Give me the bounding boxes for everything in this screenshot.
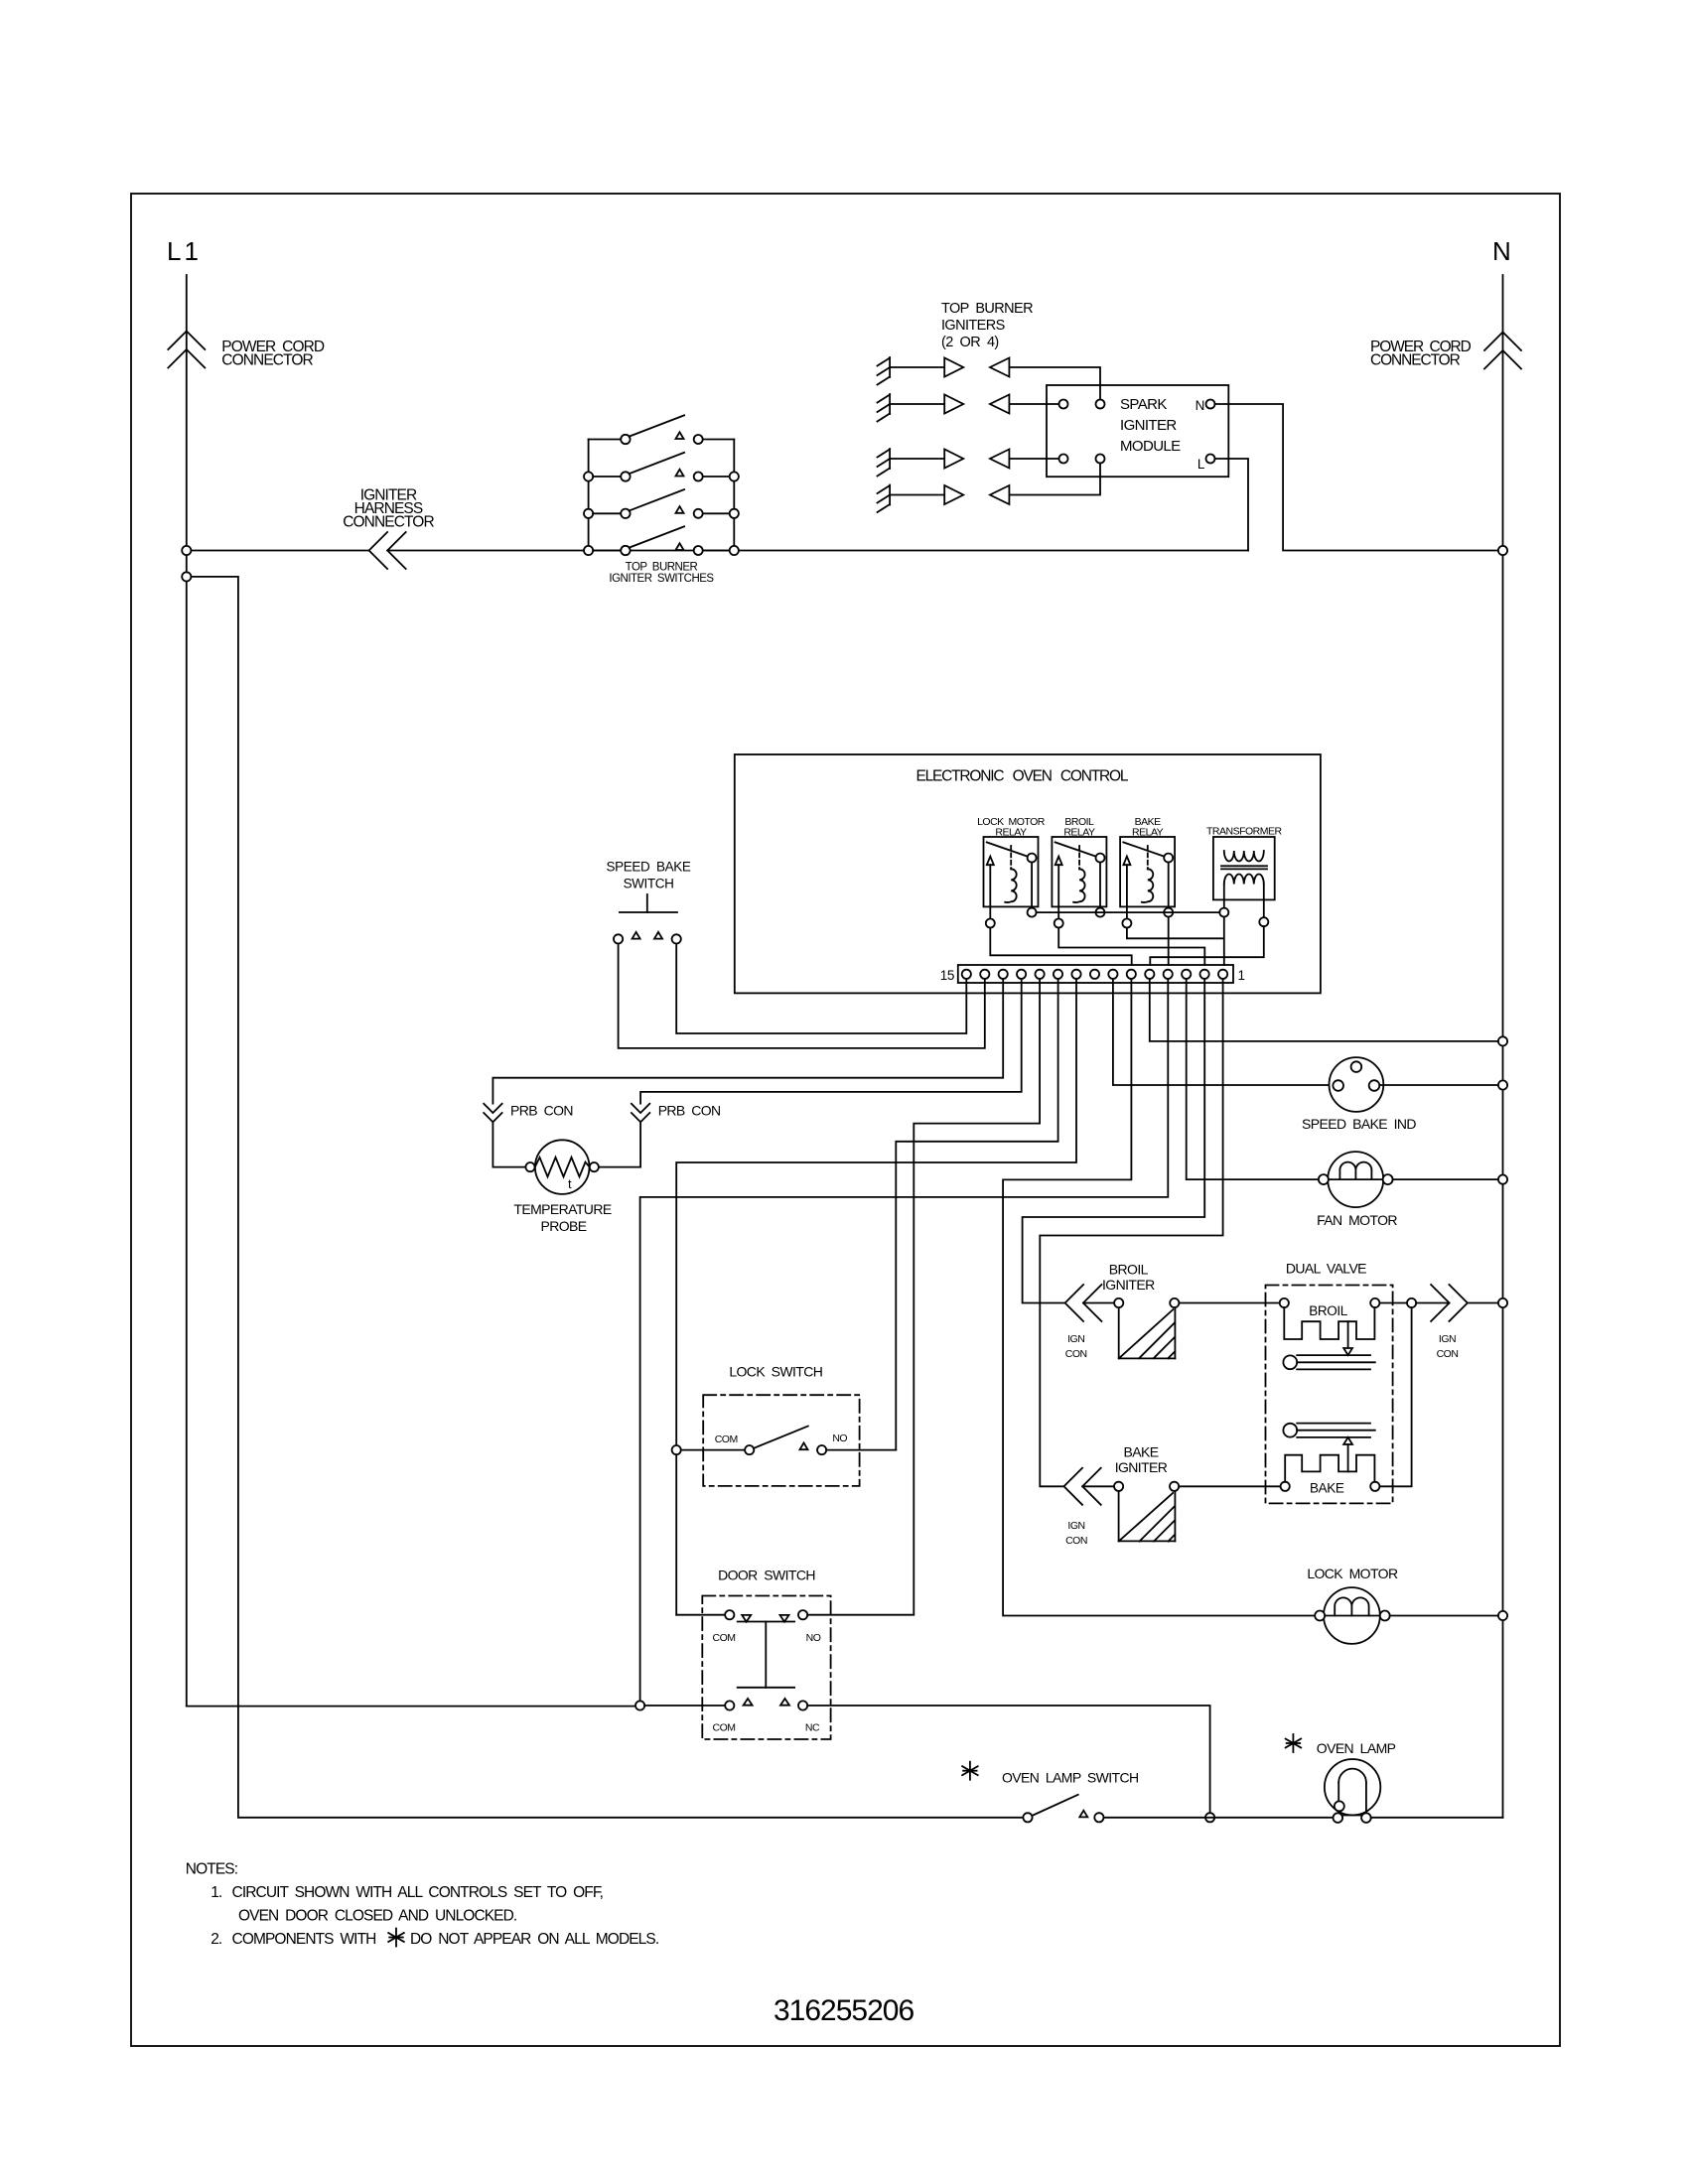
power cord connector (N) (1484, 333, 1521, 369)
wire terminal 13 to left PRB CON (492, 979, 1003, 1103)
wire terminal 3 to fan motor (1187, 979, 1319, 1179)
svg-text:BAKE: BAKE (1124, 1444, 1159, 1460)
wire to door switch upper COM (676, 1614, 725, 1616)
svg-text:CON: CON (1065, 1348, 1087, 1360)
junction node N line / lock motor (1498, 1611, 1507, 1620)
EOC terminal strip P1 (15..1) (958, 965, 1233, 983)
wire terminal 10 to lock switch NO (896, 979, 1057, 1449)
svg-text:LOCK MOTOR: LOCK MOTOR (1307, 1566, 1398, 1581)
svg-text:N: N (1492, 236, 1511, 266)
label bake igniter (1115, 1444, 1168, 1476)
label oven lamp switch (with asterisk) (962, 1762, 1138, 1786)
junction node valve outputs (1407, 1298, 1416, 1307)
bake valve solenoid winding (1285, 1455, 1374, 1482)
door switch upper contacts (COM-NO) (725, 1610, 807, 1622)
svg-text:1. CIRCUIT SHOWN WITH ALL: 1. CIRCUIT SHOWN WITH ALL CONTROLS SET T… (211, 1884, 603, 1901)
top burner igniter switches: left bus (588, 440, 590, 551)
wire IGN CON to bake igniter (1082, 1485, 1114, 1487)
wire main L1 row (191, 550, 1248, 552)
label IGN CON (bake left) (1065, 1520, 1087, 1547)
terminal pin 6 (1127, 970, 1136, 979)
svg-text:DOOR SWITCH: DOOR SWITCH (718, 1568, 815, 1583)
junction node lock switch COM feed (672, 1445, 681, 1454)
terminal broil relay K2 coil (1055, 919, 1063, 928)
module terminal (igniter 2) (1059, 400, 1068, 409)
label lock motor (1307, 1566, 1398, 1581)
broil valve solenoid winding (1284, 1307, 1374, 1339)
wire left PRB CON to probe left terminal (492, 1122, 525, 1166)
wire terminal 5 to N line (1150, 979, 1498, 1041)
label BAKE (1310, 1481, 1344, 1496)
svg-text:LOCK SWITCH: LOCK SWITCH (729, 1364, 822, 1380)
wire bus to terminal 4 (1168, 917, 1170, 965)
pin label 1 (1238, 968, 1245, 983)
svg-text:NC: NC (805, 1722, 820, 1734)
speed bake indicator DS1 (1330, 1057, 1384, 1112)
wire speed bake switch left to terminal 14 (619, 944, 985, 1048)
wire broil relay coil to terminal 2 (1058, 928, 1204, 966)
wire junction to IGN CON right (1416, 1302, 1449, 1304)
igniter switch 3 (584, 489, 739, 518)
label lock switch NO (832, 1433, 847, 1444)
svg-text:FAN MOTOR: FAN MOTOR (1317, 1212, 1397, 1228)
wire igniter 3 to module (1009, 458, 1058, 460)
svg-text:DO NOT APPEAR ON ALL MODE: DO NOT APPEAR ON ALL MODELS. (410, 1931, 658, 1948)
junction node N line / speed bake ind (1498, 1080, 1507, 1089)
top burner igniter switches: right bus (733, 440, 735, 551)
lock switch box (dash-dot) (703, 1395, 859, 1486)
label top burner igniter switches (609, 562, 714, 586)
broil relay K2 (1052, 816, 1106, 918)
label door switch lower COM (713, 1722, 736, 1734)
label temperature probe (513, 1201, 611, 1234)
svg-text:COM: COM (713, 1632, 736, 1644)
svg-text:OVEN LAMP: OVEN LAMP (1317, 1740, 1396, 1756)
lock switch S2 (681, 1427, 897, 1455)
svg-text:316255206: 316255206 (774, 1994, 914, 2027)
terminal broil valve left (1280, 1298, 1289, 1307)
terminal pin 9 (1071, 970, 1080, 979)
label PRB CON (left) (510, 1103, 573, 1119)
label fan motor (1317, 1212, 1397, 1228)
igniter switch 2 (584, 453, 739, 481)
svg-text:COM: COM (713, 1722, 736, 1734)
node L1 (167, 236, 202, 266)
connector IGN CON (bake left) (1064, 1468, 1101, 1505)
svg-text:IGNITER: IGNITER (1115, 1459, 1168, 1475)
svg-text:OVEN DOOR CLOSED AND UNLOC: OVEN DOOR CLOSED AND UNLOCKED. (238, 1908, 516, 1925)
wire lamp branch (L1 to oven lamp switch row) (191, 577, 1023, 1818)
label dual valve (1286, 1261, 1366, 1277)
label IGN CON (broil left) (1065, 1333, 1087, 1360)
junction node door switch lower COM feed (635, 1701, 644, 1709)
wire terminal 4 to door switch lower junction (640, 979, 1169, 1701)
wire IGN CON right to N line (1468, 1302, 1498, 1304)
wire lock motor relay coil to terminal 6 (990, 928, 1131, 966)
label lock switch (729, 1364, 822, 1380)
svg-text:TRANSFORMER: TRANSFORMER (1206, 826, 1283, 838)
label broil igniter (1102, 1262, 1155, 1294)
wire oven lamp to N line corner (1371, 1817, 1503, 1819)
terminal pin 15 (962, 970, 971, 979)
module terminal (igniter 4) (1096, 455, 1105, 464)
label door switch (718, 1568, 815, 1583)
wire L1 to door switch lower COM row (187, 1706, 635, 1707)
junction node transformer left / bus (1219, 908, 1228, 917)
broil igniter E1 (hot surface igniter) (1114, 1298, 1179, 1359)
svg-text:IGNITER SWITCHES: IGNITER SWITCHES (609, 573, 714, 585)
label electronic oven control (915, 768, 1128, 785)
junction node N line / fan motor (1498, 1175, 1507, 1184)
temperature probe RT1 (525, 1140, 599, 1194)
svg-text:BROIL: BROIL (1309, 1303, 1347, 1318)
wire terminal 7 to speed bake indicator (1113, 979, 1334, 1085)
terminal lock motor relay K1 coil (986, 919, 995, 928)
node N (1492, 236, 1511, 266)
wire door switch NC to oven lamp row (807, 1706, 1209, 1813)
svg-text:SPEED BAKE IND: SPEED BAKE IND (1302, 1116, 1416, 1132)
wire module N to N line (1215, 404, 1498, 551)
svg-text:TOP BURNER: TOP BURNER (626, 562, 698, 574)
connector PRB CON (right) (632, 1104, 649, 1122)
terminal pin 8 (1090, 970, 1099, 979)
wire relay NO bus (1037, 911, 1220, 913)
wire terminal 11 to door switch upper NO (807, 979, 1040, 1614)
junction node broil relay K2 NO contact / bus (1096, 908, 1105, 917)
wire IGN CON to broil igniter (1083, 1302, 1114, 1304)
label spark igniter module (1120, 396, 1181, 455)
svg-text:IGN: IGN (1439, 1333, 1456, 1345)
label oven lamp (with asterisk) (1286, 1734, 1396, 1756)
wire bake igniter to dual valve (1179, 1485, 1280, 1487)
top burner igniter 1 (spark electrode) (878, 357, 1010, 385)
label IGN CON (right) (1437, 1333, 1459, 1360)
svg-text:CONNECTOR: CONNECTOR (221, 352, 313, 369)
speed bake switch S1 (607, 860, 691, 944)
svg-text:2. COMPONENTS WITH: 2. COMPONENTS WITH (211, 1931, 375, 1948)
svg-text:IGN: IGN (1067, 1520, 1084, 1532)
wire terminal 6 to lock motor (1003, 979, 1315, 1615)
broil valve plunger (1283, 1355, 1374, 1369)
svg-text:TEMPERATURE: TEMPERATURE (513, 1201, 611, 1217)
svg-text:IGN: IGN (1067, 1333, 1084, 1345)
oven lamp DS2 (1325, 1759, 1380, 1823)
svg-text:COM: COM (715, 1433, 738, 1445)
svg-text:RELAY: RELAY (995, 827, 1027, 839)
svg-text:N: N (1196, 398, 1204, 413)
svg-text:ELECTRONIC OVEN CONTROL: ELECTRONIC OVEN CONTROL (915, 768, 1128, 785)
svg-text:PRB CON: PRB CON (510, 1103, 573, 1119)
lock motor M2 (1315, 1587, 1390, 1644)
label top burner igniters (941, 301, 1033, 350)
wire bus/transformer-left to terminal 1 (1223, 917, 1225, 965)
wire oven lamp switch to lamp (1104, 1817, 1334, 1819)
bake igniter E2 (hot surface igniter) (1114, 1482, 1179, 1542)
terminal bake relay K3 coil (1122, 919, 1131, 928)
wire bake relay coil to terminal 1 line (1127, 928, 1222, 939)
svg-text:CONNECTOR: CONNECTOR (1370, 352, 1461, 369)
svg-text:SPEED BAKE: SPEED BAKE (607, 860, 691, 875)
junction node lock motor relay K1 NO contact / bus (1028, 908, 1037, 917)
svg-text:15: 15 (940, 968, 954, 983)
wire transformer right to terminal 5 (1150, 926, 1264, 965)
module pin L (1197, 455, 1215, 473)
igniter switch 4 (584, 526, 739, 555)
lock motor relay K1 (977, 816, 1046, 918)
terminal pin 14 (980, 970, 989, 979)
wire module L to main row (1215, 459, 1249, 551)
svg-text:L: L (1197, 457, 1205, 472)
label PRB CON (right) (658, 1103, 721, 1119)
svg-text:L1: L1 (167, 236, 202, 266)
svg-text:DUAL VALVE: DUAL VALVE (1286, 1261, 1366, 1277)
terminal pin 2 (1200, 970, 1209, 979)
svg-text:RELAY: RELAY (1132, 827, 1164, 839)
fan motor M1 (1319, 1152, 1393, 1207)
top burner igniter 3 (spark electrode) (878, 449, 1010, 477)
wire speed bake switch right to terminal 15 (676, 944, 966, 1034)
note 2 (211, 1929, 658, 1949)
terminal bake valve left (1281, 1482, 1290, 1491)
oven lamp switch S3 (1023, 1795, 1103, 1823)
label lock switch COM (715, 1433, 738, 1445)
svg-text:CONNECTOR: CONNECTOR (343, 514, 434, 531)
door switch plunger (738, 1622, 794, 1688)
svg-text:OVEN LAMP SWITCH: OVEN LAMP SWITCH (1002, 1770, 1139, 1786)
pin label 15 (940, 968, 954, 983)
wire igniter 4 to module (1009, 464, 1100, 495)
connector PRB CON (left) (484, 1104, 501, 1122)
transformer T1 (1206, 826, 1283, 918)
top burner igniter 4 (spark electrode) (878, 485, 1010, 513)
svg-text:BAKE: BAKE (1310, 1481, 1344, 1496)
junction node L1 / lamp branch (182, 572, 191, 581)
svg-text:CON: CON (1065, 1535, 1087, 1547)
door switch lower contacts (COM-NC) (725, 1699, 807, 1710)
note 1 line 2 (238, 1908, 516, 1925)
junction node N line / terminal 5 wire (1498, 1036, 1507, 1045)
power cord connector (L1) (168, 332, 205, 368)
svg-text:TOP BURNER: TOP BURNER (941, 301, 1033, 317)
igniter switch 1 (589, 415, 735, 444)
svg-text:IGNITER: IGNITER (1102, 1277, 1155, 1293)
wire terminal 9 to lock switch COM / door switch COM (676, 979, 1076, 1614)
border frame (131, 194, 1560, 2046)
wire bake valve right to junction (1379, 1307, 1411, 1486)
label power cord connector (left) (221, 339, 325, 369)
module terminal (igniter 3) (1059, 455, 1068, 464)
electronic oven control box (735, 754, 1321, 993)
wire igniter 1 to module (1009, 367, 1100, 400)
label power cord connector (right) (1370, 339, 1472, 369)
terminal bake valve right (1370, 1482, 1379, 1491)
wire N vertical (1502, 275, 1504, 1818)
wire igniter 2 to module (1009, 403, 1058, 405)
wire terminal 12 to right PRB CON (640, 979, 1022, 1103)
wire right PRB CON to probe right terminal (599, 1122, 640, 1166)
svg-text:BROIL: BROIL (1109, 1262, 1149, 1278)
junction node lamp row / door NC (1205, 1813, 1214, 1822)
terminal pin 5 (1145, 970, 1154, 979)
wire fan motor to N line (1393, 1178, 1498, 1180)
terminal pin 10 (1054, 970, 1062, 979)
wire terminal 2 to broil igniter (1023, 979, 1205, 1302)
wire speed bake indicator to N line (1379, 1084, 1498, 1086)
wire broil igniter to dual valve (1179, 1302, 1279, 1304)
module terminal (igniter 1) (1096, 400, 1105, 409)
junction node N line / module N (1498, 546, 1507, 555)
svg-text:NO: NO (806, 1632, 821, 1644)
connector IGN CON (broil left) (1065, 1285, 1102, 1321)
wire broil valve right to junction (1379, 1302, 1407, 1304)
label speed bake ind (1302, 1116, 1416, 1132)
svg-text:PRB CON: PRB CON (658, 1103, 721, 1119)
label BROIL (1309, 1303, 1347, 1318)
junction node bake relay K3 NO contact / bus (1164, 908, 1173, 917)
svg-text:1: 1 (1238, 968, 1245, 983)
junction node N line / valve row (1498, 1298, 1507, 1307)
svg-text:NOTES:: NOTES: (186, 1861, 237, 1878)
terminal pin 12 (1017, 970, 1026, 979)
terminal pin 13 (999, 970, 1008, 979)
label door switch NO (806, 1632, 821, 1644)
bake valve actuator arrow (1343, 1437, 1352, 1472)
label door switch upper COM (713, 1632, 736, 1644)
notes heading (186, 1861, 237, 1878)
terminal transformer right (1259, 917, 1268, 926)
module pin N (1196, 398, 1215, 413)
door switch box (dash-dot) (702, 1596, 830, 1740)
svg-text:IGNITER: IGNITER (1120, 417, 1177, 434)
note 1 line 1 (211, 1884, 603, 1901)
svg-text:(2 OR 4): (2 OR 4) (941, 335, 999, 350)
terminal broil valve right (1370, 1298, 1379, 1307)
junction node L1 / main row (182, 546, 191, 555)
terminal pin 1 (1218, 970, 1227, 979)
top burner igniter 2 (spark electrode) (878, 394, 1010, 422)
label door switch NC (805, 1722, 820, 1734)
label igniter harness connector (343, 487, 434, 531)
bake relay K3 (1120, 816, 1175, 918)
svg-text:IGNITERS: IGNITERS (941, 318, 1005, 334)
terminal pin 11 (1036, 970, 1045, 979)
terminal pin 7 (1108, 970, 1117, 979)
connector IGN CON (right) (1431, 1285, 1468, 1321)
svg-text:RELAY: RELAY (1063, 827, 1095, 839)
svg-text:NO: NO (832, 1433, 847, 1444)
svg-text:SWITCH: SWITCH (624, 877, 674, 891)
terminal pin 3 (1182, 970, 1191, 979)
svg-text:CON: CON (1437, 1348, 1459, 1360)
wire lock motor to N line (1390, 1615, 1498, 1617)
svg-text:PROBE: PROBE (540, 1218, 586, 1234)
wire terminal 1 to bake igniter (1040, 979, 1222, 1486)
broil valve actuator arrow (1343, 1321, 1352, 1355)
wire junction to door switch lower COM (644, 1705, 725, 1706)
spark igniter module U1 (1047, 385, 1228, 477)
igniter harness connector (369, 532, 406, 569)
part number 316255206 (774, 1994, 914, 2027)
terminal pin 4 (1164, 970, 1173, 979)
dual valve box (dash-dot) (1266, 1286, 1393, 1504)
svg-text:SPARK: SPARK (1120, 396, 1167, 413)
wire L1 vertical (186, 275, 188, 1706)
svg-text:MODULE: MODULE (1120, 438, 1181, 455)
bake valve plunger (1283, 1424, 1374, 1437)
